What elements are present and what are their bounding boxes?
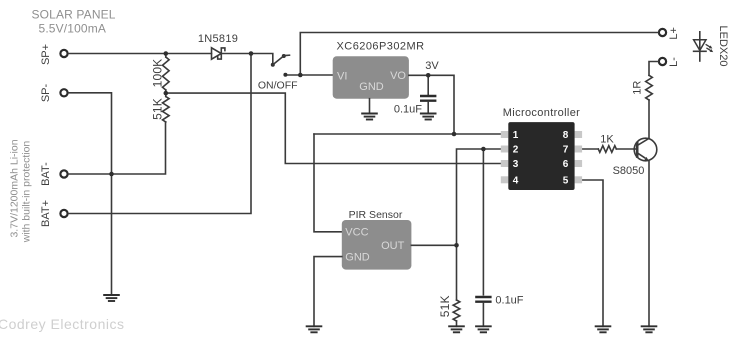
wire divider tap to pin 3 [166,93,501,163]
LED symbol LEDX20 [694,26,729,67]
ground for C2 [475,326,492,332]
svg-text:PIR Sensor: PIR Sensor [349,209,403,221]
wire pin 2 to PIR OUT net [457,149,501,300]
svg-text:XC6206P302MR: XC6206P302MR [337,41,425,53]
regulator U1 XC6206P302MR [333,41,425,99]
wire L- to 1R [649,62,658,76]
resistor 51K upper [151,93,170,122]
diode D1 1N5819 [198,33,238,59]
svg-text:VO: VO [390,70,406,82]
node PIR OUT junction [454,243,459,248]
ground for emitter [641,326,658,332]
svg-text:3V: 3V [425,60,439,72]
svg-text:5: 5 [563,175,569,186]
svg-text:L+: L+ [668,27,680,40]
svg-text:2: 2 [513,145,519,156]
wire SP+ to diode [68,53,211,55]
wire VI node to top rail [300,33,658,76]
resistor 100K [151,54,170,94]
node VI junction [298,73,303,78]
svg-text:0.1uF: 0.1uF [394,104,422,116]
ground for PIR [306,326,323,332]
node 3V pin1 junction [452,132,457,137]
node divider tap junction [164,91,169,96]
ground for pin 5 [595,326,612,332]
ground for 51K [448,326,465,332]
svg-text:4: 4 [513,175,519,186]
wire emitter to ground [648,161,650,327]
svg-text:3: 3 [513,159,519,170]
svg-text:100K: 100K [151,59,165,88]
resistor 51K lower [438,295,460,326]
svg-text:6: 6 [563,159,569,170]
capacitor C1 0.1uF [394,75,437,115]
svg-text:L-: L- [668,57,680,67]
svg-text:1N5819: 1N5819 [198,33,238,45]
wire pin 5 to ground [582,180,603,326]
svg-text:SOLAR PANEL: SOLAR PANEL [32,8,116,22]
microcontroller U2 [501,107,582,190]
wire PIR GND to ground [314,257,342,327]
svg-text:51K: 51K [151,98,165,120]
svg-text:Microcontroller: Microcontroller [503,107,580,119]
wire pin 7 to 1K [582,148,598,150]
resistor 1R [631,75,652,100]
svg-text:with built-in protection: with built-in protection [21,141,33,244]
ground for battery minus [103,295,120,301]
svg-text:1K: 1K [600,134,614,146]
wire switch output to regulator VI [285,74,332,76]
battery note label [9,139,33,243]
svg-text:7: 7 [563,145,569,156]
svg-text:1: 1 [513,130,519,141]
wire SP- down to BAT- node [68,93,111,174]
wire pin 2 node to C2 [482,149,484,295]
node BAT- junction [109,172,114,177]
svg-text:ON/OFF: ON/OFF [258,80,298,92]
ground for regulator [361,114,378,120]
svg-text:GND: GND [359,81,384,93]
svg-text:1R: 1R [631,81,643,95]
transistor Q1 S8050 [613,138,657,177]
svg-text:BAT+: BAT+ [40,200,52,227]
wire regulator GND to ground [369,99,371,114]
wire pin 1 to PIR VCC [314,134,342,232]
svg-text:8: 8 [563,130,569,141]
svg-text:VI: VI [337,71,347,83]
wire collector to 1R [648,100,650,138]
wire diode to switch [222,54,273,64]
switch S1 ON/OFF [258,54,298,92]
wire BAT- to divider bottom [68,122,165,174]
node diode output junction [249,51,254,56]
svg-text:LEDX20: LEDX20 [717,26,729,67]
wire VO to 3V node and pin 1 [409,75,454,134]
svg-text:GND: GND [345,251,370,263]
terminal SP+ [40,44,68,65]
svg-text:51K: 51K [438,295,452,317]
svg-text:5.5V/100mA: 5.5V/100mA [39,22,107,36]
svg-text:0.1uF: 0.1uF [495,295,523,307]
wire pin 1 rail [314,133,501,135]
terminal L+ [659,27,680,40]
node C1 junction [426,73,431,78]
svg-text:S8050: S8050 [613,165,645,177]
svg-text:OUT: OUT [381,240,405,252]
node SP+ divider junction [164,51,169,56]
ground for C1 [420,114,437,120]
solar panel label [32,8,116,36]
wire BAT+ up to diode output node [68,54,251,214]
resistor 1K [598,134,634,153]
terminal SP- [40,83,68,102]
svg-text:VCC: VCC [345,227,368,239]
terminal BAT- [40,162,68,186]
svg-text:BAT-: BAT- [40,162,52,186]
svg-text:SP+: SP+ [40,44,52,65]
terminal L- [659,57,680,67]
node pin2 C2 junction [481,147,486,152]
capacitor C2 0.1uF [475,295,524,327]
wire PIR OUT to node [411,244,456,246]
terminal BAT+ [40,200,68,227]
svg-text:Codrey Electronics: Codrey Electronics [0,316,125,332]
PIR sensor module [342,209,412,270]
svg-text:SP-: SP- [40,83,52,102]
wire BAT- node to ground [111,174,113,295]
svg-text:3.7V/1200mAh Li-ion: 3.7V/1200mAh Li-ion [9,139,21,237]
